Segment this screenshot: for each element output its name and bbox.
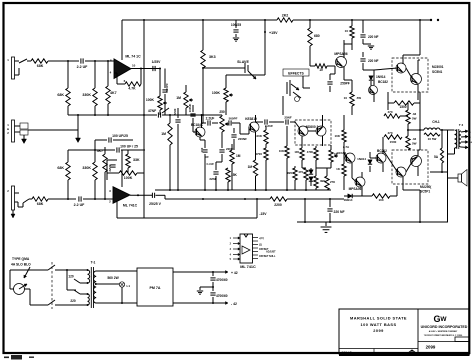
- svg-text:.5W: .5W: [356, 96, 361, 100]
- wire 330K top to cap node: [94, 140, 96, 150]
- transformer T3 taps: [461, 131, 468, 132]
- capacitor 25NF: [278, 121, 284, 123]
- lamp L1: [119, 282, 124, 287]
- svg-text:MPSA56: MPSA56: [334, 52, 347, 56]
- svg-text:470: 470: [387, 131, 392, 135]
- wire KE3819 connections: [240, 133, 249, 135]
- svg-text:5W: 5W: [412, 117, 417, 121]
- capacitor 2.2UF coupling: [202, 122, 207, 124]
- svg-text:EFFECTS: EFFECTS: [288, 72, 304, 76]
- wire +42 output: [173, 271, 222, 273]
- svg-text:10 5W: 10 5W: [428, 137, 437, 141]
- svg-text:27K: 27K: [330, 180, 335, 184]
- svg-text:ML 741C: ML 741C: [123, 204, 138, 208]
- wire bc212: [382, 137, 384, 154]
- svg-text:1N914: 1N914: [357, 157, 366, 161]
- title block bottom band: [339, 354, 470, 356]
- svg-text:ML 741C: ML 741C: [240, 265, 256, 269]
- resistor 680: [309, 20, 311, 28]
- capacitor 220NF a: [362, 20, 364, 33]
- resistor 100 driver: [300, 148, 304, 160]
- wire feedback to inverting input: [117, 83, 125, 85]
- capacitor 47NF: [157, 112, 159, 117]
- resistor 470 upper: [384, 114, 400, 118]
- svg-text:UF: UF: [205, 155, 209, 159]
- svg-text:25/25 V: 25/25 V: [149, 202, 161, 206]
- resistor 3K3: [201, 50, 205, 68]
- svg-text:T-1: T-1: [91, 261, 96, 265]
- wire opamp1 out drop: [159, 69, 161, 97]
- capacitor 22NF low: [215, 162, 217, 170]
- wire output rail down: [419, 92, 421, 144]
- capacitor 100UF tone: [192, 105, 194, 112]
- transformer T3 primary: [455, 130, 457, 148]
- svg-text:ML 74 1C: ML 74 1C: [125, 55, 141, 59]
- resistor 68K shunt ch2: [67, 180, 69, 199]
- ic ML741C left pins: [233, 237, 240, 239]
- svg-text:330K: 330K: [82, 166, 91, 170]
- svg-text:- 42: - 42: [231, 302, 237, 306]
- svg-text:10K: 10K: [279, 149, 284, 153]
- node rail end dots: [430, 19, 432, 21]
- ground arrow below jack J3: [12, 210, 14, 214]
- svg-text:+15V: +15V: [269, 31, 278, 35]
- transformer T1 core: [90, 267, 92, 308]
- switch contact ch2: [23, 199, 29, 203]
- ic ML741C right pins: [253, 237, 259, 239]
- svg-text:2K2: 2K2: [282, 14, 289, 18]
- capacitor 500PF: [164, 69, 166, 89]
- svg-text:220 NF: 220 NF: [368, 59, 379, 63]
- svg-text:22UF: 22UF: [108, 164, 112, 172]
- svg-text:10: 10: [132, 64, 136, 68]
- svg-text:4700: 4700: [255, 152, 262, 156]
- svg-text:ND800 3: ND800 3: [306, 125, 319, 129]
- wire mpsa56 top link: [344, 43, 352, 45]
- resistor 1500 mid: [384, 135, 402, 139]
- svg-text:1500: 1500: [390, 140, 397, 144]
- resistor 10 5W parallel: [424, 133, 440, 136]
- svg-text:100K: 100K: [212, 91, 221, 95]
- resistor 1M tone: [168, 123, 172, 145]
- svg-text:68K: 68K: [57, 166, 64, 170]
- wire MPSA56 emitter/collector: [343, 40, 345, 58]
- wire after 47NF: [162, 114, 222, 116]
- transistor Q3 ND8003a: [298, 126, 308, 136]
- wire cap to op-amp: [85, 60, 114, 62]
- svg-text:10: 10: [319, 68, 323, 72]
- svg-text:100 WATT BASS: 100 WATT BASS: [360, 322, 396, 327]
- capacitor 220NF rail: [329, 199, 331, 207]
- svg-text:TYPE QMA: TYPE QMA: [12, 257, 30, 261]
- svg-text:22NF: 22NF: [209, 177, 217, 181]
- ic ND8003 dashed box: [295, 120, 331, 145]
- capacitor 4700/60 lower: [212, 287, 214, 291]
- transistor Q12 MU250a: [411, 156, 422, 167]
- wire jack block to bus: [28, 129, 78, 131]
- transistor Q13 MU250b: [396, 167, 406, 177]
- resistor .33 5W lower: [406, 136, 410, 150]
- svg-text:MJ3001: MJ3001: [432, 65, 444, 69]
- resistor 1M fet gate: [253, 160, 257, 176]
- transistor Q2 KE3819 JFET: [249, 122, 259, 132]
- wire op-amp1 output: [131, 68, 160, 70]
- svg-text:4A SLO BLO: 4A SLO BLO: [11, 263, 31, 267]
- ground 220nf: [363, 43, 371, 45]
- resistor 4K7 ch1: [107, 61, 109, 86]
- svg-text:220 NF: 220 NF: [333, 210, 344, 214]
- switch contact: [19, 59, 27, 63]
- rectifier PM 7A box: [137, 268, 173, 306]
- resistor 2200: [270, 197, 287, 201]
- diode D1 1N914: [369, 76, 373, 80]
- scale row divider: [339, 348, 418, 350]
- resistor 10K mixer: [285, 146, 289, 158]
- svg-text:3K3: 3K3: [209, 55, 216, 59]
- svg-text:OFFSET NULL: OFFSET NULL: [259, 255, 276, 258]
- transistor Q7 MJ3001a: [396, 63, 406, 73]
- capacitor 2.2UF ch1: [80, 58, 82, 63]
- svg-text:.33: .33: [412, 137, 417, 141]
- resistor 820: [293, 168, 297, 180]
- svg-text:75 FROST STREET WESTBURY N.: 75 FROST STREET WESTBURY N. Y. 11590: [424, 335, 462, 337]
- resistor 4700 fet: [264, 148, 268, 160]
- resistor 10 .5W: [350, 92, 354, 106]
- resistor 2K2: [277, 18, 293, 22]
- capacitor 22UF tone: [177, 108, 179, 118]
- op-amp U2 ML741C: [113, 187, 130, 204]
- transistor Q9 BC212: [376, 153, 386, 163]
- transistor Q5 MPSA56: [336, 57, 347, 68]
- wire ch2 to op-amp2: [83, 198, 114, 200]
- capacitor 22UF ch2 fb: [110, 164, 115, 166]
- resistor 39K: [314, 176, 318, 188]
- svg-text:SC5P1: SC5P1: [420, 190, 430, 194]
- transformer T3 secondary: [459, 131, 461, 147]
- svg-text:A GULF + WESTERN COMPANY: A GULF + WESTERN COMPANY: [429, 330, 458, 333]
- wire rail drop x144: [143, 20, 145, 218]
- svg-text:+(C): +(C): [259, 237, 264, 240]
- wire bus y115: [68, 114, 157, 116]
- svg-text:100 UF/25: 100 UF/25: [112, 134, 128, 138]
- wire Q1 base: [192, 126, 194, 132]
- op-amp U1 ML741C: [114, 59, 131, 78]
- wire +15V tap: [264, 20, 266, 75]
- transistor Q4 ND8003b: [316, 126, 326, 136]
- wire mpsa06: [351, 163, 353, 178]
- svg-text:25NF: 25NF: [284, 116, 292, 120]
- wire after 2200: [287, 198, 344, 200]
- svg-text:CH-1: CH-1: [432, 120, 440, 124]
- svg-text:68K: 68K: [37, 64, 44, 68]
- wire mains bottom: [29, 289, 31, 305]
- ic ML741C DIP body: [240, 234, 253, 263]
- svg-text:2200: 2200: [274, 203, 282, 207]
- transformer T1 primary upper: [60, 269, 88, 271]
- resistor 47K feedback: [125, 82, 141, 86]
- potentiometer 100K volume ch1: [158, 96, 162, 110]
- wire below 3K3: [202, 68, 204, 115]
- svg-text:68K: 68K: [37, 202, 44, 206]
- divider tab: [455, 337, 470, 342]
- svg-text:C-CW: C-CW: [206, 162, 214, 166]
- capacitor 250PF: [329, 74, 331, 80]
- right cell divider: [418, 341, 470, 343]
- ground ps: [200, 286, 213, 288]
- svg-text:(1): (1): [259, 244, 262, 247]
- potentiometer 100K slave: [224, 88, 228, 102]
- svg-text:250: 250: [219, 110, 225, 114]
- wire -42 output: [173, 302, 222, 304]
- svg-text:1M: 1M: [248, 165, 253, 169]
- ground main: [325, 222, 327, 226]
- polarity switch block: [20, 123, 28, 129]
- svg-text:500PF: 500PF: [165, 83, 169, 92]
- svg-text:1500: 1500: [399, 105, 406, 109]
- svg-text:1M: 1M: [161, 132, 166, 136]
- svg-text:100K: 100K: [255, 134, 263, 138]
- wire mu250 links: [383, 150, 398, 172]
- svg-text:ADJUST: ADJUST: [266, 251, 276, 254]
- svg-text:39K: 39K: [320, 179, 325, 183]
- wire +15V supply rail: [122, 19, 277, 21]
- svg-text:15K: 15K: [231, 173, 238, 177]
- wire signal bus y199: [165, 198, 270, 200]
- ground at x78: [76, 138, 81, 143]
- svg-text:250PF: 250PF: [340, 82, 349, 86]
- svg-text:4K7: 4K7: [110, 91, 117, 95]
- svg-text:1M: 1M: [236, 154, 241, 158]
- resistor 10 emitter: [350, 26, 354, 38]
- svg-text:4700/60: 4700/60: [216, 294, 228, 298]
- wire rail drop x203: [202, 20, 204, 50]
- resistor 4700 driver: [314, 148, 318, 160]
- capacitor 220NF tone: [233, 128, 235, 133]
- svg-text:+ 42: + 42: [231, 271, 238, 275]
- svg-text:500PF: 500PF: [229, 117, 238, 121]
- wire rail drop x122: [121, 20, 123, 60]
- diode 1N914 low: [348, 194, 352, 198]
- wire driver links: [295, 122, 300, 128]
- svg-text:1N914: 1N914: [344, 198, 353, 202]
- wire op-amp2 output: [130, 194, 152, 196]
- svg-text:470: 470: [387, 110, 392, 114]
- svg-text:1/25V: 1/25V: [152, 60, 162, 64]
- svg-text:W: W: [440, 316, 447, 323]
- svg-text:.33: .33: [412, 112, 417, 116]
- capacitor 4700/60 upper: [212, 272, 214, 276]
- svg-text:100/25: 100/25: [231, 23, 241, 27]
- wire after 25/25: [156, 194, 166, 196]
- resistor 330K shunt ch2: [94, 180, 96, 199]
- transistor Q11 MPSA06: [355, 177, 365, 187]
- capacitor 220NF b: [362, 52, 364, 57]
- wire ch2 to cap: [48, 198, 76, 200]
- resistor 1M tone2: [230, 150, 234, 164]
- svg-text:100 UF / 25: 100 UF / 25: [120, 145, 138, 149]
- wire ch1 to cap: [48, 60, 79, 62]
- wire coil to T3: [440, 129, 454, 131]
- wire opamp2 verticals: [121, 150, 123, 187]
- input jack J3: [12, 186, 15, 210]
- fuse F1: [14, 284, 25, 295]
- wire ch2 top bus: [68, 149, 105, 151]
- transformer T1 secondary: [94, 271, 97, 303]
- ic ML741C triangle: [242, 246, 250, 254]
- resistor 27K: [325, 176, 329, 190]
- wire tone outputs: [216, 161, 222, 163]
- wire secondary mid tap: [96, 283, 120, 285]
- transformer T1 taps: [87, 282, 89, 284]
- svg-text:5A: 5A: [434, 155, 439, 159]
- transformer T1 primary lower: [88, 294, 90, 305]
- potentiometer 1K bias: [329, 150, 333, 162]
- transistor Q1 BC184C: [195, 127, 205, 137]
- svg-text:330K: 330K: [82, 93, 91, 97]
- resistor 470 fb2: [304, 168, 308, 180]
- svg-text:100: 100: [200, 147, 204, 152]
- svg-text:1M: 1M: [176, 96, 181, 100]
- scale diamond mark: [408, 350, 416, 353]
- capacitor 25/25V: [151, 193, 153, 198]
- fuse 5A: [440, 148, 443, 163]
- svg-text:10: 10: [344, 96, 348, 100]
- svg-text:PM 7A: PM 7A: [150, 286, 161, 290]
- wire pot to bus: [159, 110, 161, 115]
- svg-text:820: 820: [287, 171, 292, 175]
- input jack J2 body: [12, 120, 15, 142]
- resistor 100K fet: [264, 130, 268, 144]
- switch 47NF: [162, 108, 169, 113]
- wire opamp1 +V: [121, 20, 123, 57]
- wire speaker node: [408, 129, 424, 131]
- svg-text:10: 10: [345, 29, 349, 33]
- capacitor 100 UF/25 lower: [105, 149, 115, 151]
- capacitor 2.2 UF ch2: [78, 196, 80, 201]
- svg-text:4700: 4700: [307, 150, 314, 154]
- svg-text:2099: 2099: [426, 345, 436, 350]
- wire speaker return: [430, 171, 448, 173]
- svg-text:4.7K: 4.7K: [128, 87, 136, 91]
- resistor 10K left: [342, 130, 346, 142]
- svg-text:4700/60: 4700/60: [216, 278, 228, 282]
- resistor .33 5W upper: [406, 110, 410, 124]
- svg-text:22UF: 22UF: [173, 108, 177, 115]
- potentiometer 1M gain: [184, 92, 188, 108]
- svg-text:UNICORD INCORPORATED: UNICORD INCORPORATED: [421, 325, 468, 329]
- wire -15V bus: [117, 217, 257, 219]
- resistor 68K input ch2: [32, 197, 48, 201]
- wire mains top: [9, 270, 11, 289]
- ground jack block: [23, 135, 25, 139]
- svg-text:68K: 68K: [57, 93, 64, 97]
- effects jack: [289, 80, 291, 96]
- svg-text:100UF: 100UF: [188, 104, 192, 113]
- potentiometer 250 treble: [220, 116, 224, 132]
- capacitor 100 UF emitter: [204, 140, 206, 148]
- svg-text:100: 100: [294, 150, 299, 154]
- feedback box network ch2: [106, 160, 108, 180]
- svg-text:-15V: -15V: [259, 212, 267, 216]
- svg-text:2.2 UF: 2.2 UF: [77, 65, 89, 69]
- capacitor 22NF mid: [221, 144, 223, 148]
- wire mj3001 links: [374, 68, 398, 70]
- svg-text:MU250(: MU250(: [420, 185, 432, 189]
- svg-text:220: 220: [70, 299, 76, 303]
- capacitor 100/25 decoupling: [235, 20, 237, 28]
- svg-text:SLAVE: SLAVE: [237, 60, 249, 64]
- title block divider vertical: [417, 309, 419, 354]
- resistor 1500 out: [394, 101, 414, 105]
- svg-text:680: 680: [314, 34, 320, 38]
- svg-text:5W: 5W: [412, 142, 417, 146]
- transistor Q10 BC184: [345, 153, 355, 163]
- ic MJ3001 dashed box: [392, 58, 428, 92]
- bottom-left print marks: [4, 357, 9, 359]
- svg-text:100K: 100K: [146, 98, 155, 102]
- svg-text:BC212: BC212: [377, 149, 387, 153]
- svg-text:1N914: 1N914: [376, 75, 386, 79]
- capacitor 100 UF/25 upper: [95, 139, 107, 141]
- effects send wires: [282, 96, 284, 115]
- wire tone buses: [169, 115, 171, 123]
- resistor 33K: [126, 154, 130, 168]
- resistor 330K shunt ch1: [94, 61, 96, 88]
- ic MU250 dashed box: [392, 150, 428, 184]
- svg-text:47NF: 47NF: [148, 109, 156, 113]
- wire slave feed: [203, 67, 236, 69]
- wire t3 primary conns: [454, 148, 456, 154]
- title block outer: [339, 309, 470, 354]
- svg-text:SC5N1: SC5N1: [432, 70, 443, 74]
- resistor 100 low: [372, 194, 390, 198]
- svg-text:2.2UF: 2.2UF: [206, 117, 215, 121]
- transistor Q6 BC182: [369, 86, 378, 95]
- svg-text:560 2W: 560 2W: [107, 276, 119, 280]
- svg-text:2099: 2099: [373, 328, 384, 333]
- svg-text:10K: 10K: [334, 134, 340, 138]
- wire Q1 collector up: [201, 115, 203, 128]
- wire Q1 emitter: [199, 137, 201, 140]
- resistor 10 to base: [310, 65, 315, 67]
- switch mains dashed: [51, 262, 53, 309]
- resistor 1K q10: [342, 164, 346, 176]
- svg-text:220 NF: 220 NF: [368, 35, 379, 39]
- svg-text:MPSA06: MPSA06: [349, 187, 362, 191]
- resistor 68K shunt ch1: [67, 61, 69, 88]
- wire fb box: [127, 150, 129, 154]
- switch contacts mains: [48, 265, 55, 270]
- wire bus right end: [419, 190, 421, 222]
- svg-text:33K: 33K: [133, 158, 140, 162]
- svg-text:2.2 UF: 2.2 UF: [74, 203, 86, 207]
- capacitor 500PF tone: [228, 120, 230, 125]
- capacitor 2.2UF fet out: [256, 121, 264, 123]
- wire feedback down: [140, 69, 142, 85]
- capacitor 1/25V: [152, 66, 154, 71]
- svg-text:120: 120: [68, 275, 74, 279]
- resistor 68K input ch1: [31, 59, 48, 63]
- resistor 100K fb: [119, 171, 137, 175]
- transformer T3 core: [456, 129, 458, 149]
- wire bus y190: [155, 189, 331, 191]
- svg-text:100K: 100K: [124, 176, 133, 180]
- svg-text:T 3: T 3: [459, 123, 464, 127]
- svg-text:100: 100: [378, 198, 383, 202]
- svg-text:L1: L1: [127, 284, 131, 288]
- diode 1N914 vas: [368, 160, 372, 164]
- svg-text:470: 470: [298, 170, 303, 174]
